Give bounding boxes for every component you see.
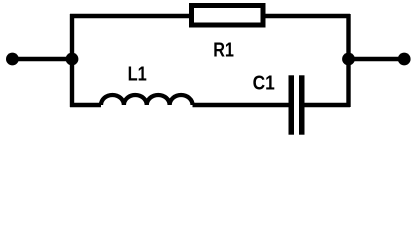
svg-text:R1: R1 <box>213 40 234 62</box>
svg-text:L1: L1 <box>128 64 147 86</box>
svg-text:C1: C1 <box>253 73 275 95</box>
